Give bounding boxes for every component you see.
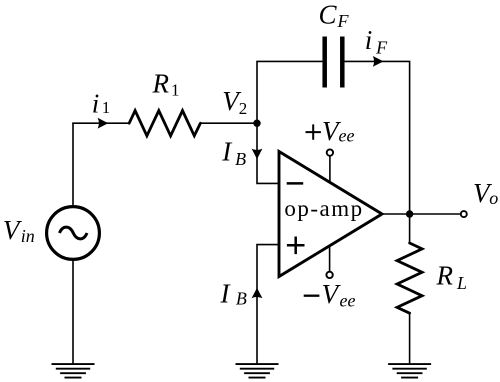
ground under Vin	[52, 364, 95, 378]
-Vee supply wire	[329, 246, 331, 272]
Vo terminal circle	[461, 211, 467, 217]
svg-text:in: in	[21, 226, 35, 246]
wire node V2 down to inverting input	[257, 123, 280, 183]
op-amp plus marker	[287, 237, 305, 255]
ground under non-inverting input	[236, 364, 279, 378]
svg-text:L: L	[456, 273, 467, 293]
wire source to ground	[72, 259, 74, 364]
svg-text:ee: ee	[340, 290, 356, 310]
svg-text:R: R	[152, 68, 170, 98]
wire output node down to RL	[409, 214, 411, 243]
label i1	[92, 89, 111, 119]
svg-text:1: 1	[171, 81, 180, 100]
wire capacitor to right corner and down to output	[344, 61, 409, 214]
wire top horizontal input to resistor	[72, 122, 129, 124]
+Vee terminal circle	[327, 149, 333, 155]
capacitor CF left plate	[322, 37, 327, 88]
label CF	[319, 0, 350, 31]
label +Vee	[306, 116, 355, 146]
ground under RL	[388, 364, 431, 378]
label -Vee	[304, 279, 356, 310]
resistor RL	[397, 243, 422, 313]
output wire from op-amp to Vo terminal	[382, 213, 461, 215]
svg-text:ee: ee	[339, 126, 355, 146]
-Vee terminal circle	[326, 272, 332, 278]
svg-text:o: o	[489, 188, 498, 208]
label iF	[365, 25, 388, 57]
arrow IB into non-inverting path	[252, 288, 263, 299]
+Vee supply wire	[329, 156, 331, 183]
capacitor CF right plate	[340, 37, 345, 88]
label RL	[436, 260, 468, 293]
svg-text:2: 2	[239, 99, 248, 118]
label IB lower	[220, 278, 247, 308]
label Vo	[473, 178, 498, 208]
arrow i1	[98, 118, 109, 129]
svg-text:B: B	[235, 149, 246, 169]
source Vin circle	[47, 207, 100, 260]
wire resistor to node V2	[200, 122, 257, 124]
op-amp minus marker	[287, 182, 304, 185]
source sine symbol	[60, 227, 88, 239]
node V2 junction dot	[253, 120, 260, 127]
arrow iF	[373, 56, 384, 67]
wire RL to ground	[409, 313, 411, 364]
svg-text:1: 1	[102, 98, 111, 117]
svg-text:F: F	[337, 11, 350, 31]
svg-text:C: C	[319, 0, 338, 29]
label V2	[222, 86, 247, 118]
resistor R1	[129, 111, 200, 136]
label Vin	[3, 215, 35, 246]
label IB upper	[221, 137, 246, 169]
wire left vertical from source to top corner	[72, 123, 74, 207]
svg-text:R: R	[436, 260, 454, 290]
output node dot	[406, 210, 413, 217]
label R1	[152, 68, 180, 99]
svg-text:i: i	[92, 89, 100, 119]
arrow IB into inverting input	[252, 149, 263, 160]
svg-text:i: i	[365, 25, 373, 55]
svg-text:F: F	[375, 38, 388, 58]
wire +input from ground up to op-amp	[257, 245, 280, 364]
op-amp text	[284, 196, 363, 221]
feedback wire up from node V2	[257, 61, 322, 123]
svg-text:B: B	[236, 289, 247, 309]
svg-text:op-amp: op-amp	[284, 196, 363, 221]
op-amp U1 triangle	[279, 152, 382, 277]
